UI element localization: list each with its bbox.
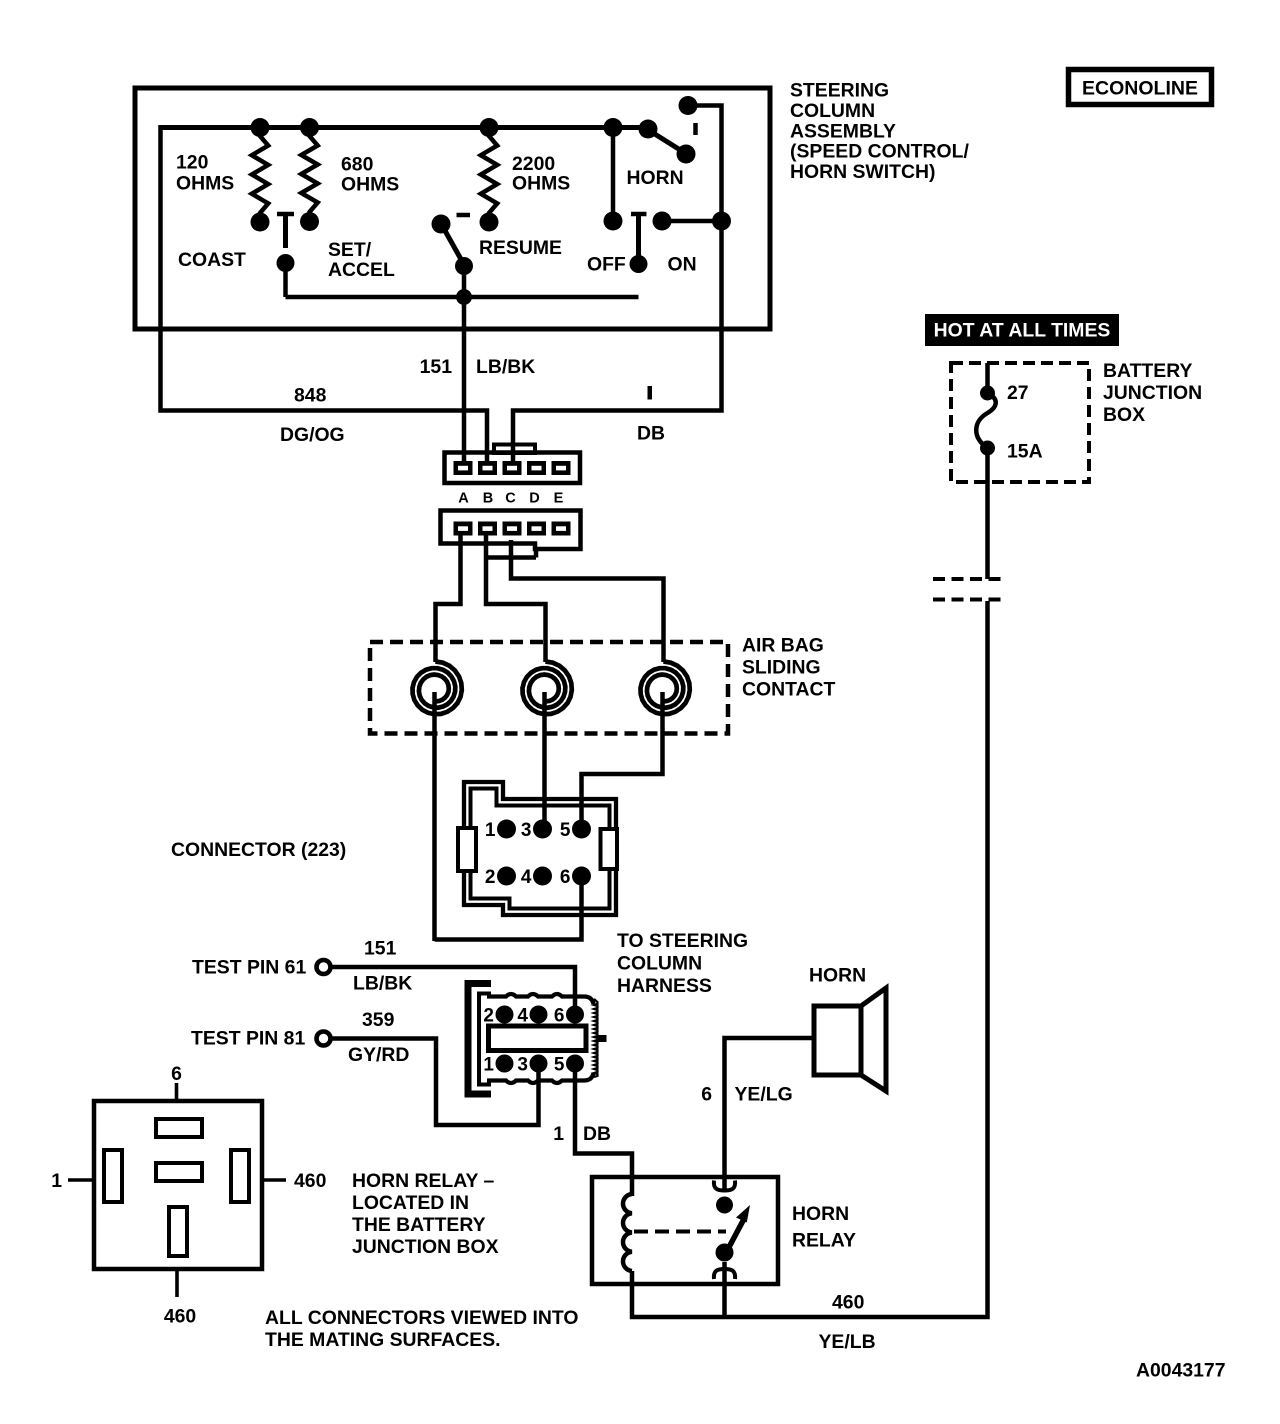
bus wire: [161, 125, 649, 130]
coil 3 exit wire: [582, 692, 663, 829]
harness connector pin numbers 1 3 5: [483, 1055, 565, 1076]
label HORN switch: [627, 167, 684, 189]
label 460 (YE/LB): [832, 1292, 864, 1314]
svg-text:BOX: BOX: [1103, 404, 1145, 426]
label HORN RELAY LOCATED: [352, 1170, 499, 1258]
battery junction box: [951, 363, 1089, 482]
svg-text:6: 6: [171, 1063, 182, 1085]
relay terminal 1 slot: [104, 1150, 122, 1202]
label SET/ACCEL: [328, 239, 395, 281]
svg-text:ON: ON: [668, 254, 697, 276]
wire coil bottom / YE-LB run: [632, 601, 988, 1317]
svg-text:STEERING: STEERING: [790, 80, 889, 102]
svg-text:120: 120: [176, 152, 208, 174]
horn relay dashed link: [634, 1230, 726, 1234]
label 848: [294, 385, 327, 407]
svg-text:DB: DB: [583, 1123, 611, 1145]
svg-text:YE/LG: YE/LG: [735, 1084, 793, 1106]
harness connector body: [487, 994, 607, 1083]
connector C2 body: [441, 511, 581, 550]
label TEST PIN 81: [191, 1028, 305, 1050]
label 120 OHMS: [176, 152, 234, 195]
label COAST: [178, 249, 246, 271]
label RESUME: [479, 237, 562, 259]
switch RESUME arm: [444, 228, 463, 262]
switch HORN upper dot: [679, 96, 698, 115]
svg-text:JUNCTION BOX: JUNCTION BOX: [352, 1236, 499, 1258]
svg-text:3: 3: [521, 820, 532, 841]
coil 1 exit wire: [432, 692, 437, 941]
svg-text:B: B: [483, 491, 493, 507]
harness connector pins top row: [496, 1006, 585, 1024]
switch COAST pole dot: [277, 254, 295, 272]
steering column assembly box: [135, 88, 770, 329]
switch OFF fixed dot: [604, 212, 623, 231]
contact ON dot: [653, 212, 672, 231]
fuse 27 15A: [976, 386, 996, 456]
part number A0043177: [1136, 1360, 1226, 1382]
harness connector pins bottom row: [496, 1055, 585, 1073]
svg-text:LB/BK: LB/BK: [353, 973, 412, 995]
svg-text:THE BATTERY: THE BATTERY: [352, 1214, 486, 1236]
connector 223 pins bottom row: [497, 867, 591, 886]
label HORN: [809, 965, 866, 987]
svg-text:TO STEERING: TO STEERING: [617, 930, 748, 952]
label 1 (DB circuit): [648, 386, 653, 400]
horn relay upper contact dot: [716, 1197, 733, 1214]
horn relay upper hook: [714, 1181, 735, 1191]
switch RESUME pole dot: [455, 257, 473, 275]
connector 223 pins top row: [497, 820, 591, 839]
connector 223 pin numbers 1 3 5: [485, 820, 571, 841]
note ALL CONNECTORS: [265, 1307, 579, 1351]
svg-text:151: 151: [364, 938, 397, 960]
svg-text:COLUMN: COLUMN: [790, 100, 875, 122]
svg-text:151: 151: [420, 356, 453, 378]
svg-text:JUNCTION: JUNCTION: [1103, 382, 1202, 404]
wire pin C to coil 3: [511, 540, 664, 662]
horn relay connector box: [94, 1101, 262, 1269]
svg-text:4: 4: [517, 1006, 528, 1027]
label 1 (DB): [553, 1123, 564, 1145]
wire pin B to coil 2: [486, 535, 546, 662]
air bag sliding contact box: [370, 642, 728, 734]
harness connector slot: [489, 1026, 587, 1051]
label GY/RD: [348, 1044, 409, 1066]
junction dot common/151: [456, 289, 472, 305]
svg-text:RESUME: RESUME: [479, 237, 562, 259]
svg-text:RELAY: RELAY: [792, 1230, 856, 1252]
svg-text:HOT AT ALL TIMES: HOT AT ALL TIMES: [934, 320, 1111, 342]
wire ON contact: [662, 219, 722, 224]
svg-text:OHMS: OHMS: [341, 174, 399, 196]
horn speaker: [814, 988, 886, 1091]
switch RESUME gap tick: [457, 213, 471, 218]
label STEERING COLUMN ASSEMBLY: [790, 80, 969, 184]
svg-text:OHMS: OHMS: [176, 172, 234, 194]
svg-text:5: 5: [554, 1055, 565, 1076]
wire 151 drop: [462, 266, 467, 462]
svg-text:ACCEL: ACCEL: [328, 259, 395, 281]
svg-text:2: 2: [483, 1006, 494, 1027]
wire bus to OFF contact: [611, 128, 616, 222]
svg-text:LOCATED IN: LOCATED IN: [352, 1192, 469, 1214]
label TO STEERING COLUMN HARNESS: [617, 930, 748, 997]
svg-text:HORN: HORN: [792, 1203, 849, 1225]
svg-text:ECONOLINE: ECONOLINE: [1082, 78, 1198, 100]
label 6 (YE/LG): [701, 1084, 712, 1106]
svg-text:AIR BAG: AIR BAG: [742, 635, 824, 657]
svg-text:6: 6: [701, 1084, 712, 1106]
wire speed-control common: [286, 295, 639, 300]
wire test pin 61: [331, 967, 575, 1013]
horn relay coil: [623, 1194, 632, 1271]
svg-text:DG/OG: DG/OG: [280, 424, 345, 446]
svg-text:2: 2: [485, 867, 496, 888]
label DB (lower): [583, 1123, 611, 1145]
svg-text:HORN RELAY –: HORN RELAY –: [352, 1170, 494, 1192]
svg-text:CONNECTOR (223): CONNECTOR (223): [171, 839, 346, 861]
lead 460 right: [262, 1178, 286, 1182]
svg-text:1: 1: [51, 1170, 62, 1192]
label TEST PIN 61: [192, 957, 306, 979]
svg-text:D: D: [529, 491, 539, 507]
switch COAST/SET contact: [277, 214, 294, 248]
svg-text:359: 359: [362, 1009, 395, 1031]
junction dot bus/OFF: [604, 118, 623, 137]
wire pin 5 to horn relay: [575, 1064, 632, 1197]
switch HORN pivot dot: [639, 120, 658, 139]
switch OFF pole dot: [630, 255, 648, 273]
label AIR BAG SLIDING CONTACT: [742, 635, 836, 701]
svg-text:LB/BK: LB/BK: [476, 356, 535, 378]
label DG/OG: [280, 424, 345, 446]
label 27: [1007, 382, 1029, 404]
wire break marks: [933, 579, 1004, 600]
wire horn YE/LG: [725, 1038, 815, 1190]
svg-text:680: 680: [341, 154, 373, 176]
svg-text:1: 1: [485, 820, 496, 841]
svg-text:TEST PIN 81: TEST PIN 81: [191, 1028, 305, 1050]
relay terminal center slot: [156, 1163, 202, 1181]
label 151 (test pin): [364, 938, 397, 960]
svg-text:A0043177: A0043177: [1136, 1360, 1226, 1382]
svg-text:HARNESS: HARNESS: [617, 975, 712, 997]
label 680 OHMS: [341, 154, 399, 196]
lead 6: [175, 1083, 179, 1101]
test pin 81 terminal: [317, 1032, 331, 1046]
svg-text:BATTERY: BATTERY: [1103, 360, 1192, 382]
svg-text:27: 27: [1007, 382, 1029, 404]
wire fuse to break: [985, 455, 990, 579]
label DB: [637, 423, 665, 445]
coil 2: [523, 662, 572, 715]
horn relay lower hook: [714, 1269, 735, 1279]
svg-text:COAST: COAST: [178, 249, 246, 271]
switch OFF/ON contact: [631, 214, 647, 264]
switch RESUME fixed dot: [432, 215, 451, 234]
label BATTERY JUNCTION BOX: [1103, 360, 1202, 426]
connector 223 pin numbers 2 4 6: [485, 867, 571, 888]
test pin 61 terminal: [317, 960, 331, 974]
svg-text:COLUMN: COLUMN: [617, 953, 702, 975]
connector C1 pin letters: [458, 491, 563, 507]
svg-text:HORN: HORN: [809, 965, 866, 987]
svg-text:ALL CONNECTORS VIEWED INTO: ALL CONNECTORS VIEWED INTO: [265, 1307, 579, 1329]
relay terminal 460b slot: [169, 1207, 187, 1256]
label YE/LB: [819, 1331, 876, 1353]
svg-text:1: 1: [483, 1055, 494, 1076]
label LB/BK (test pin): [353, 973, 412, 995]
lead 1: [68, 1178, 94, 1182]
svg-text:460: 460: [164, 1306, 196, 1328]
coil 1: [413, 662, 462, 715]
svg-text:ASSEMBLY: ASSEMBLY: [790, 120, 896, 142]
label 151: [420, 356, 453, 378]
coil 2 exit wire: [542, 692, 547, 829]
switch HORN arm: [650, 131, 685, 153]
relay terminal 460 slot: [231, 1150, 249, 1202]
wire relay switch to bottom: [722, 1262, 727, 1317]
connector 223 shell: [458, 782, 617, 915]
label LB/BK: [476, 356, 535, 378]
svg-text:A: A: [458, 491, 469, 507]
label 460 (relay right): [294, 1170, 326, 1192]
svg-text:C: C: [505, 491, 516, 507]
label 1 (relay): [51, 1170, 62, 1192]
svg-text:(SPEED CONTROL/: (SPEED CONTROL/: [790, 141, 969, 163]
label 2200 OHMS: [512, 153, 570, 194]
svg-text:HORN: HORN: [627, 167, 684, 189]
svg-text:6: 6: [560, 867, 571, 888]
wire pin A to coil 1: [436, 535, 461, 662]
svg-text:TEST PIN 61: TEST PIN 61: [192, 957, 306, 979]
horn relay box: [592, 1177, 778, 1284]
svg-text:460: 460: [294, 1170, 326, 1192]
svg-text:5: 5: [560, 820, 571, 841]
lead 460 bottom: [175, 1269, 179, 1297]
label ON: [668, 254, 697, 276]
relay terminal 6 slot: [156, 1119, 202, 1137]
label OFF: [587, 254, 626, 276]
label 460 (relay bottom): [164, 1306, 196, 1328]
harness connector pin numbers 2 4 6: [483, 1006, 564, 1027]
svg-text:YE/LB: YE/LB: [819, 1331, 876, 1353]
svg-text:THE MATING SURFACES.: THE MATING SURFACES.: [265, 1329, 501, 1351]
svg-text:E: E: [554, 491, 564, 507]
wire coil1 to pin 6: [435, 876, 582, 940]
wire test pin 81: [331, 1039, 539, 1126]
label 359: [362, 1009, 395, 1031]
svg-text:848: 848: [294, 385, 327, 407]
wire DB right drop: [513, 106, 722, 463]
svg-text:GY/RD: GY/RD: [348, 1044, 409, 1066]
svg-text:3: 3: [517, 1055, 528, 1076]
harness connector bracket: [468, 984, 491, 1095]
connector C1 body: [445, 445, 581, 484]
horn relay armature: [728, 1205, 751, 1250]
switch HORN arm end dot: [677, 145, 696, 164]
coil 3: [641, 662, 690, 715]
wire COAST pole down: [283, 263, 288, 297]
svg-text:CONTACT: CONTACT: [742, 679, 836, 701]
svg-text:15A: 15A: [1007, 441, 1043, 463]
wire 848 left drop: [161, 125, 488, 462]
svg-text:460: 460: [832, 1292, 864, 1314]
resistor 680 OHMS: [300, 118, 319, 231]
connector C2 tab stub: [486, 548, 536, 558]
switch HORN gap tick: [693, 123, 698, 135]
HOT AT ALL TIMES label: [925, 314, 1119, 346]
svg-text:OHMS: OHMS: [512, 172, 570, 194]
svg-text:HORN SWITCH): HORN SWITCH): [790, 161, 935, 183]
svg-text:1: 1: [553, 1123, 564, 1145]
svg-text:4: 4: [521, 867, 532, 888]
junction dot ON: [712, 212, 731, 231]
svg-text:SET/: SET/: [328, 239, 372, 261]
ECONOLINE title box: [1069, 70, 1212, 105]
label 6 (relay): [171, 1063, 182, 1085]
resistor 2200 OHMS: [480, 118, 499, 232]
svg-text:OFF: OFF: [587, 254, 626, 276]
label CONNECTOR (223): [171, 839, 346, 861]
resistor 120 OHMS: [251, 118, 270, 232]
wire into fuse: [985, 363, 990, 390]
label 15A: [1007, 441, 1043, 463]
label YE/LG: [735, 1084, 793, 1106]
svg-text:SLIDING: SLIDING: [742, 657, 821, 679]
svg-text:DB: DB: [637, 423, 665, 445]
svg-text:6: 6: [554, 1006, 565, 1027]
label HORN RELAY: [792, 1203, 856, 1252]
horn relay lower contact dot: [716, 1244, 734, 1262]
